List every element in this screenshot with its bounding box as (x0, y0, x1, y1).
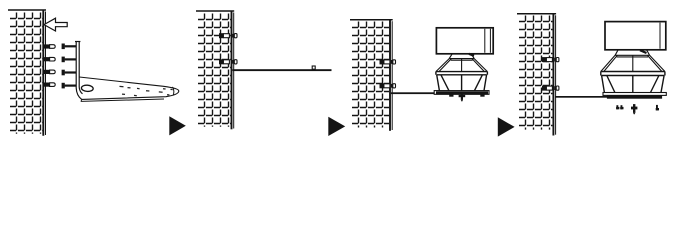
neck edge highlight (469, 54, 474, 56)
loose fixing screw (633, 104, 635, 113)
wall panel-1 front edge (thick) (42, 10, 44, 136)
bracket plate edge-on panel-3 (391, 92, 487, 94)
wall panel-2 front edge (thick) (231, 11, 233, 129)
loose screw 1 (616, 105, 618, 109)
bracket plate edge-on panel-4 (555, 96, 608, 98)
wall panel-4 top edge (517, 13, 556, 15)
wall panel-1 front edge (thin) (45, 12, 47, 136)
fixing screw under plate (461, 94, 463, 100)
plate peg panel-2 (312, 66, 315, 69)
plate slots (120, 86, 173, 95)
loose screw 2 (621, 105, 623, 109)
push-in arrow (44, 18, 67, 31)
stand neck (449, 54, 474, 60)
stand base plate (434, 91, 489, 95)
foot 2 (480, 94, 484, 96)
step arrow 1 (169, 116, 186, 135)
stand base bar (dark) (436, 91, 488, 94)
speaker cabinet box (605, 22, 666, 50)
wall anchor 3 (44, 70, 50, 74)
cabinet side-face lines (659, 23, 661, 49)
speaker cabinet box (436, 28, 493, 54)
wall panel-2 brick hatch (198, 14, 231, 127)
step arrow 3 (498, 117, 515, 136)
wall panel-3 front edge (thin) (391, 21, 393, 130)
mount screw 2 panel-4 (542, 86, 547, 91)
bracket screw 4 (62, 83, 65, 89)
stand rim (601, 72, 665, 76)
stand base plate (603, 93, 666, 96)
plate thickness edge (81, 87, 174, 102)
stand base bar (dark) (607, 95, 662, 98)
mount screw 1 panel-2 (219, 33, 224, 38)
stand funnel (436, 59, 488, 72)
stand funnel (601, 55, 665, 71)
wall anchor 2 (44, 57, 50, 61)
bracket screw 3 (62, 70, 65, 76)
bracket plate edge-on panel-2 (233, 69, 332, 71)
mount screw 1 panel-3 (380, 59, 385, 64)
stand bucket (602, 76, 665, 93)
mount screw 2 panel-2 (219, 59, 224, 64)
wall panel-3 front edge (thick) (389, 20, 391, 131)
mount screw 1 panel-4 (542, 57, 547, 62)
wall panel-4 brick hatch (519, 16, 552, 130)
wall panel-2 top edge (196, 10, 234, 12)
wall panel-4 front edge (thin) (555, 15, 557, 134)
bracket screw 2 (62, 57, 65, 63)
plate keyhole (81, 85, 93, 92)
wall panel-3 top edge (350, 19, 393, 21)
bracket screw 1 (62, 44, 65, 50)
bracket arm (76, 42, 82, 100)
stand rim (436, 72, 488, 75)
step arrow 2 (328, 117, 345, 136)
wall anchor 1 (44, 44, 50, 48)
wall anchor 4 (44, 83, 50, 87)
wall panel-3 brick hatch (352, 22, 389, 128)
wall panel-1 top edge (8, 9, 46, 11)
wall panel-4 front edge (thick) (552, 14, 554, 136)
bracket plate (79, 77, 179, 99)
neck edge highlight (640, 50, 647, 53)
wall panel-1 brick hatch (10, 13, 42, 134)
loose screw 3 (656, 105, 658, 111)
mount screw 2 panel-3 (380, 83, 385, 88)
cabinet side-face lines (485, 29, 491, 53)
wall panel-2 front edge (thin) (233, 13, 235, 129)
foot 1 (449, 94, 453, 96)
stand bucket (437, 75, 487, 91)
stand neck (615, 50, 650, 57)
